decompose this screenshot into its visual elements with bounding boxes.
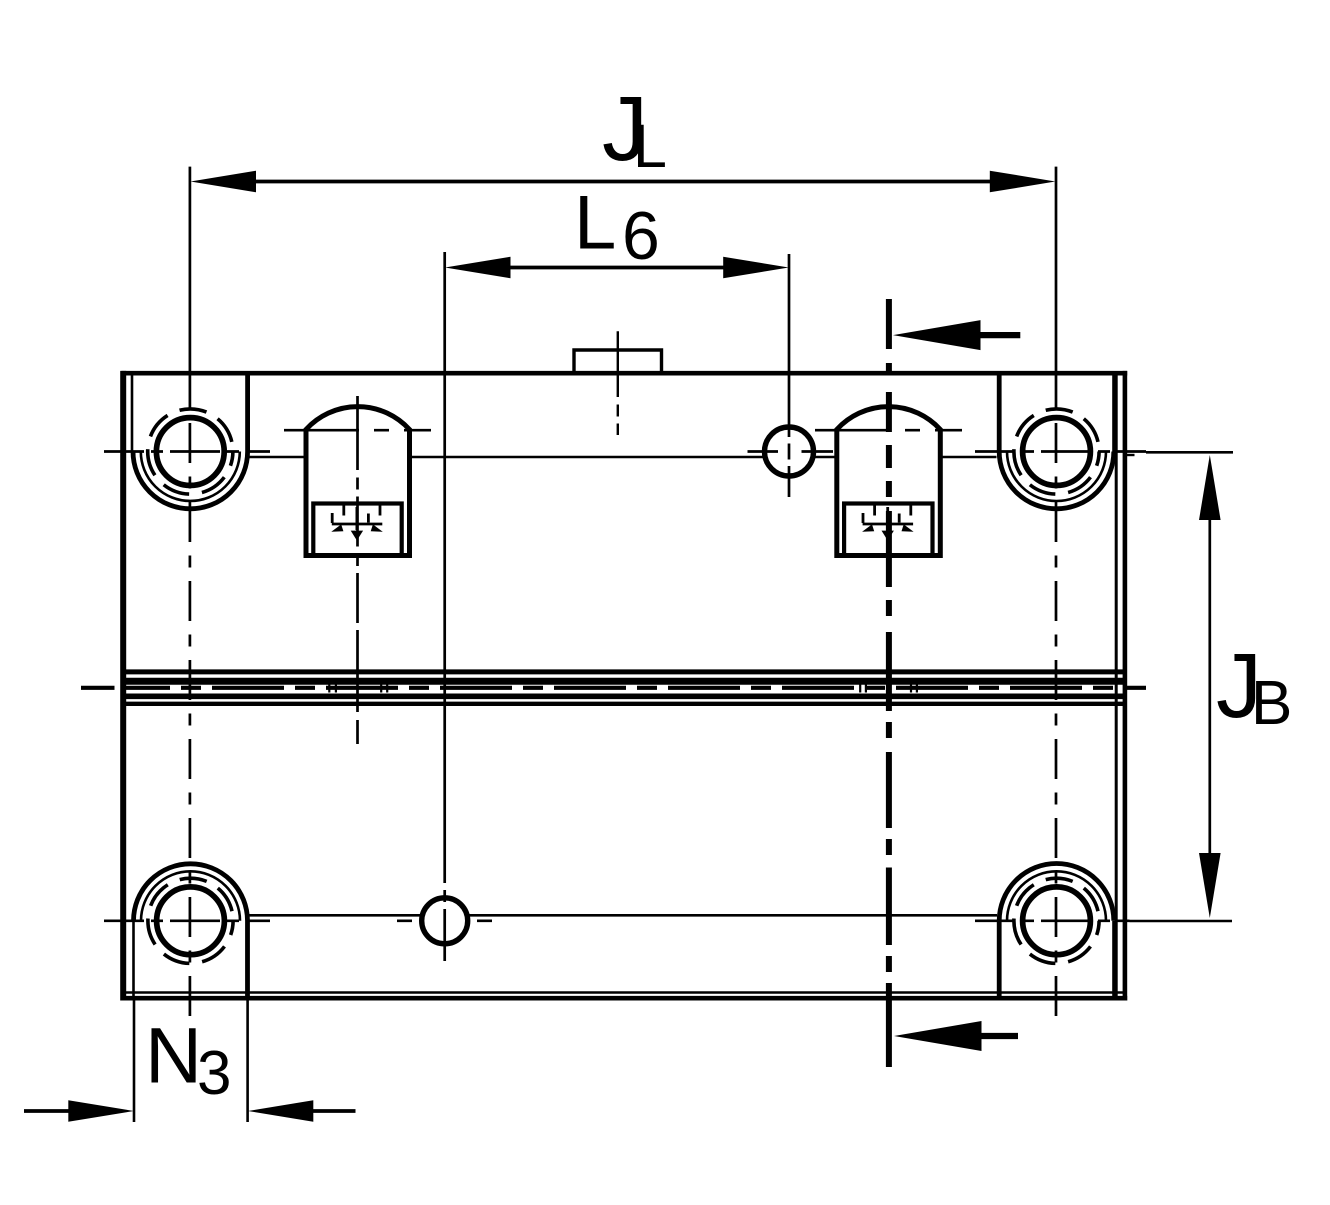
rail joint tick marks left (329, 681, 387, 693)
bottom-left pocket inner arc (141, 871, 240, 921)
rail band line 4 (122, 702, 1127, 706)
N3 arrowhead left (pointing right) (68, 1100, 134, 1122)
bottom-left mounting pocket (134, 864, 248, 998)
carriage body bottom thick edge (122, 996, 1128, 1001)
rail band line 1 (122, 669, 1127, 674)
L6 arrowhead left (445, 257, 511, 279)
center line column left holes x=190 (189, 167, 192, 1016)
JL dimension line (254, 180, 992, 184)
svg-text:B: B (1251, 669, 1292, 738)
edge feature line top (behind ports/circle) (249, 456, 997, 459)
JB dimension line (1208, 518, 1211, 855)
top-left mounting hole (156, 418, 224, 486)
carriage body bottom thin edge (126, 991, 1126, 993)
top-right thread dashed circle (1014, 409, 1099, 494)
L6 arrowhead right (723, 257, 789, 279)
right lubrication port housing (837, 407, 941, 556)
left lubrication port housing (306, 407, 410, 556)
section arrow bottom (894, 1021, 982, 1051)
carriage body left edge (120, 371, 126, 1001)
N3 arrowhead right (pointing left) (248, 1100, 313, 1122)
bottom counterbore circle (422, 898, 468, 944)
top counterbore circle (765, 427, 814, 476)
top-left mounting pocket (133, 373, 248, 509)
bottom-right thread dashed circle (1014, 878, 1099, 963)
edge feature line bottom (behind circle) (249, 914, 998, 917)
section cut line (thick dash-dot) x=888.9 (886, 299, 892, 1067)
bottom-left mounting hole (157, 887, 225, 955)
body right inner chamfer line (1115, 376, 1118, 997)
top-left thread dashed circle (148, 409, 233, 494)
N3 dimension tail left (24, 1109, 70, 1113)
svg-text:3: 3 (197, 1039, 231, 1108)
L6 dimension line (508, 266, 726, 270)
horizontal center ticks top counterbore (748, 450, 834, 453)
JB arrowhead bottom (1199, 853, 1221, 918)
horizontal center line bottom-right hole (975, 919, 1130, 922)
tab center line (617, 331, 619, 435)
JL arrowhead left (191, 171, 257, 193)
carriage body top edge (122, 371, 1128, 376)
left lubrication port inner cup (313, 504, 401, 556)
rail band line 3 (122, 693, 1127, 699)
top-right mounting hole (1023, 418, 1091, 486)
rail band line 2 (122, 678, 1127, 685)
center line / L6 extension x=444.7 (443, 252, 446, 961)
top-right pocket inner arc (1007, 452, 1106, 502)
stub right of body edge (1127, 454, 1135, 456)
svg-text:6: 6 (622, 198, 660, 274)
right lubrication port inner cup (844, 504, 932, 556)
JL arrowhead right (990, 171, 1056, 193)
N3 extension line right (246, 998, 249, 1122)
left port center line x=357.5 (356, 396, 359, 744)
bottom-right mounting pocket (999, 864, 1114, 999)
top-right mounting pocket (999, 373, 1114, 509)
bottom-right mounting hole (1023, 887, 1091, 955)
center line column right holes x=1056 (1055, 167, 1058, 1016)
rail joint tick marks right (860, 681, 917, 693)
bottom-left thread dashed circle (148, 878, 233, 963)
carriage body right edge (1123, 371, 1128, 1001)
right port horizontal center line y=430 (815, 429, 962, 432)
bottom-left pocket left thin side (132, 921, 135, 998)
N3 dimension tail right (313, 1109, 356, 1113)
left port grease-fitting symbol (332, 506, 383, 531)
horizontal center line top-right hole (975, 450, 1146, 453)
horizontal center ticks bottom counterbore (397, 919, 492, 922)
center line / L6 extension x=789 (788, 254, 791, 497)
bottom-right pocket inner arc (1007, 871, 1106, 921)
svg-text:L: L (574, 180, 616, 265)
top-left pocket inner arc (141, 452, 240, 501)
svg-text:N: N (145, 1011, 202, 1100)
right port grease-fitting symbol (863, 506, 914, 531)
left port horizontal center line y=430 (284, 429, 431, 432)
horizontal center line top-left hole (104, 450, 270, 453)
horizontal center line bottom-left hole (104, 919, 270, 922)
section arrow top (893, 320, 981, 350)
rail center dash-dot line (81, 686, 1146, 690)
svg-text:L: L (633, 112, 667, 180)
N3 extension line left (133, 998, 136, 1122)
top-left pocket left thin side (131, 373, 134, 452)
reference tab on top edge (574, 350, 662, 371)
JB arrowhead top (1199, 455, 1221, 520)
JB extension line bottom (1130, 920, 1233, 923)
JB extension line top (1146, 451, 1233, 454)
